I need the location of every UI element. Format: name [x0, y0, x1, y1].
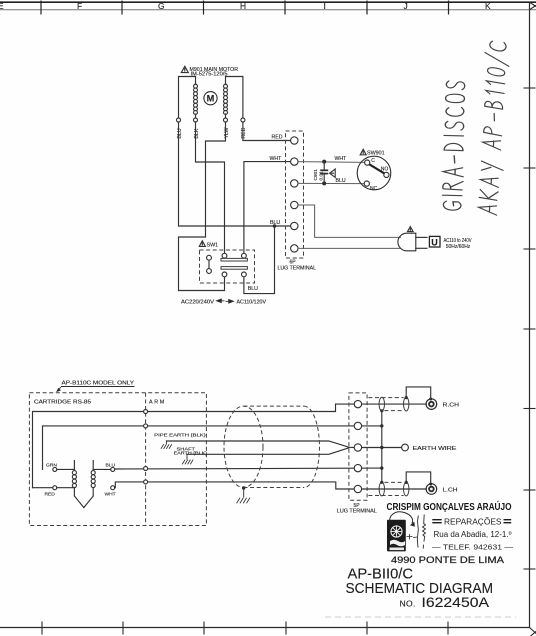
switch SW1 slide bar top	[221, 253, 247, 261]
stamp squiggle 1	[417, 516, 418, 548]
AC plug prong 1	[416, 236, 427, 238]
svg-text:G: G	[158, 1, 165, 11]
switch SW1 warning triangle	[199, 241, 205, 247]
shield ellipse r1	[379, 397, 384, 411]
AC plug body	[398, 233, 416, 251]
handwriting AKAY AP-B110/C	[475, 39, 511, 215]
wire BLU motor to lug	[179, 122, 291, 226]
wire lug6 to plug	[298, 247, 401, 249]
switch SW1 left contacts	[207, 255, 212, 273]
svg-text:AC110 to 240V: AC110 to 240V	[444, 238, 472, 244]
shield dashed top r	[368, 397, 403, 399]
svg-text:I: I	[324, 1, 326, 11]
arrow right	[226, 300, 234, 304]
cable bundle body top	[244, 405, 305, 407]
svg-text:RED: RED	[241, 127, 247, 138]
svg-text:RED: RED	[272, 135, 283, 141]
svg-text:J: J	[404, 1, 408, 11]
dot l1 top (bus end)	[380, 481, 383, 484]
wire rch	[362, 403, 427, 405]
stamp squiggle 2	[423, 515, 426, 549]
svg-text:WHT: WHT	[105, 491, 116, 497]
divider feedthru circle 4	[144, 480, 148, 484]
svg-text:GRN: GRN	[46, 463, 57, 469]
wire WHT lug to SW901	[298, 161, 365, 164]
switch SW901 contact NO	[384, 172, 389, 177]
wire wht to lug5	[115, 482, 355, 489]
cable bundle right end	[304, 406, 319, 487]
wire motor top left	[179, 77, 196, 119]
svg-text:NC: NC	[370, 186, 378, 192]
svg-text:R.CH: R.CH	[443, 403, 460, 409]
svg-text:— TELEF. 942631 —: — TELEF. 942631 —	[432, 544, 513, 551]
cable bundle body bottom	[244, 487, 305, 489]
stamp small marks	[407, 534, 418, 540]
svg-text:EARTH (BLK): EARTH (BLK)	[174, 451, 208, 457]
cartridge coil left	[72, 461, 83, 508]
svg-text:EARTH WIRE: EARTH WIRE	[413, 446, 458, 452]
wire tone arm 2 (grn)	[43, 426, 355, 470]
svg-text:50Hz/60Hz: 50Hz/60Hz	[446, 244, 471, 250]
divider feedthru circle 1	[144, 410, 148, 414]
svg-text:CRISPIM GONÇALVES ARAÚJO: CRISPIM GONÇALVES ARAÚJO	[387, 500, 512, 513]
plug warning triangle	[408, 227, 414, 232]
svg-text:LUG TERMINAL: LUG TERMINAL	[337, 509, 377, 515]
svg-text:BLK: BLK	[194, 128, 200, 138]
cartridge coil right	[84, 461, 95, 508]
bus dot wire4	[380, 466, 383, 469]
wire red to coil	[57, 487, 75, 489]
shaft earth ground	[182, 454, 193, 464]
label AP-B110C MODEL ONLY	[57, 380, 135, 391]
svg-text:YLW: YLW	[224, 128, 230, 139]
shield dashed bottom r	[384, 410, 403, 412]
faint fold line	[325, 616, 516, 618]
cable ground	[237, 488, 250, 503]
motor terminal YLW	[224, 118, 228, 122]
svg-text:M: M	[207, 94, 215, 104]
shield bus vertical	[381, 411, 383, 483]
lug 6P circle 5	[291, 222, 298, 229]
switch SW901 warning triangle	[360, 149, 366, 155]
shield hook lch	[406, 472, 431, 484]
lug 6P circle 3	[291, 180, 298, 187]
switch SW901 contact C	[365, 160, 370, 165]
voltage U box	[429, 236, 440, 247]
wire lug2 to bus	[362, 425, 382, 427]
terminal BLU	[111, 467, 115, 471]
wire earth lug3	[362, 447, 402, 449]
stamp emblem circle arrow	[390, 512, 413, 524]
svg-text:RED: RED	[45, 491, 56, 497]
terminal GRN	[53, 467, 57, 471]
svg-text:U: U	[431, 237, 438, 247]
svg-text:ARM: ARM	[149, 399, 166, 405]
svg-text:BLU: BLU	[177, 128, 183, 138]
wire lch	[362, 488, 427, 490]
switch SW901 body circle	[357, 156, 391, 190]
motor winding right (coil)	[224, 77, 228, 119]
svg-text:NO.: NO.	[400, 598, 416, 608]
svg-text:4990 PONTE DE LIMA: 4990 PONTE DE LIMA	[391, 555, 504, 565]
capacitor C901 warning triangle	[330, 169, 336, 177]
motor winding left (coil)	[194, 77, 198, 119]
svg-text:E: E	[0, 1, 4, 11]
svg-text:K: K	[485, 1, 491, 11]
wire lug4 to plug	[298, 205, 401, 237]
motor terminal RED	[241, 118, 245, 122]
dot r2 top	[405, 396, 408, 399]
corner X mark top right	[530, 2, 536, 10]
shield dashed top l	[384, 481, 403, 483]
lug 5P circle 1	[354, 400, 361, 407]
svg-text:BLU: BLU	[270, 220, 280, 226]
jack R.CH	[426, 399, 437, 410]
switch SW1 dashed box	[200, 250, 255, 283]
svg-text:BLU: BLU	[106, 463, 116, 469]
divider feedthru circle 3	[144, 467, 148, 471]
bus dot wire2	[380, 424, 383, 427]
shield ellipse l2	[404, 482, 409, 496]
wire coil to blu	[93, 468, 111, 470]
wire BLK motor to selector	[196, 122, 225, 253]
switch SW901 lever	[369, 164, 384, 173]
dot lch jack top	[429, 483, 432, 486]
wire blu to lug4	[115, 467, 382, 470]
shield dashed bottom l	[368, 495, 403, 497]
lug 5P circle 5	[354, 485, 361, 492]
svg-text:L.CH: L.CH	[443, 487, 458, 493]
shield ellipse r2	[404, 397, 409, 411]
dot l2 top	[405, 481, 408, 484]
corner X mark bottom right	[530, 628, 536, 636]
wire BLU branch to selector	[244, 226, 275, 294]
lug 6P circle 6	[291, 245, 298, 252]
svg-text:H: H	[240, 1, 246, 11]
wire WHT lug to selector	[244, 162, 291, 254]
dot rch jack top	[429, 398, 432, 401]
svg-text:C901: C901	[313, 169, 319, 181]
wire YLW motor to selector (around left)	[179, 122, 226, 291]
border frame: right ruler line	[524, 2, 536, 627]
motor M901 warning triangle	[181, 66, 188, 72]
lug terminal 6P dashed box	[286, 131, 304, 258]
bus dot earth	[380, 446, 383, 449]
lug 5P circle 2	[354, 422, 361, 429]
svg-text:NO: NO	[381, 167, 389, 173]
svg-text:SW901: SW901	[367, 151, 385, 157]
switch SW901 contact NC	[364, 181, 369, 186]
motor terminal BLU	[177, 118, 181, 122]
svg-text:AP-B110C MODEL ONLY: AP-B110C MODEL ONLY	[62, 380, 135, 386]
cartridge and arm dashed box	[29, 393, 206, 526]
svg-text:BLU: BLU	[248, 286, 258, 292]
AC plug prong 2	[416, 247, 427, 249]
junction dot BLU	[273, 224, 277, 228]
svg-text:SW1: SW1	[207, 243, 219, 249]
divider feedthru circle 2	[144, 424, 148, 428]
cable bundle ellipse	[224, 406, 263, 487]
svg-text:F: F	[77, 1, 82, 11]
switch SW1 slide bar bottom	[221, 267, 247, 277]
jack L.CH	[426, 484, 437, 495]
svg-text:Rua da Abadia, 12-1.º: Rua da Abadia, 12-1.º	[434, 530, 512, 539]
lug 6P circle 1	[291, 137, 298, 144]
wire shaft earth	[187, 448, 349, 455]
wire tone arm 1 (red)	[33, 404, 355, 488]
wire BLU lug to SW901	[298, 182, 364, 184]
svg-text:PIPE EARTH (BLK): PIPE EARTH (BLK)	[154, 433, 206, 439]
svg-text:0.01: 0.01	[318, 171, 324, 181]
arrow left	[217, 299, 225, 303]
wire motor top right	[226, 77, 243, 119]
border frame: bottom ruler line	[0, 622, 530, 635]
handwriting GIRA-DISCOS	[442, 81, 466, 211]
svg-text:BLU: BLU	[336, 178, 346, 184]
svg-text:WHT: WHT	[335, 156, 348, 162]
stamp line REPARACOES	[432, 518, 511, 527]
lug 6P circle 2	[291, 158, 298, 165]
wire pipe earth	[167, 441, 355, 448]
cable ground junction dot	[242, 486, 245, 489]
shield ellipse l1	[379, 482, 384, 496]
capacitor C901 spark killer	[320, 160, 328, 186]
terminal RED	[53, 486, 57, 490]
arm divider dashed	[145, 393, 147, 526]
lug 6P circle 4	[291, 201, 298, 208]
motor symbol U circle M	[204, 92, 217, 105]
motor terminal BLK	[194, 118, 198, 122]
svg-text:CARTRIDGE RS-85: CARTRIDGE RS-85	[34, 399, 91, 405]
svg-text:LUG TERMINAL: LUG TERMINAL	[278, 266, 317, 272]
lug 5P circle 3	[354, 444, 361, 451]
wire red terminal	[33, 487, 53, 489]
shield hook rch	[406, 387, 431, 399]
wire RED motor to lug	[243, 122, 291, 141]
svg-text:AC220/240V: AC220/240V	[181, 299, 215, 305]
lug terminal 5P dashed box	[349, 393, 367, 500]
stamp emblem dark block	[387, 520, 406, 552]
lug 5P circle 4	[354, 464, 361, 471]
earth wire terminal	[402, 444, 409, 451]
svg-text:C: C	[371, 158, 375, 164]
terminal WHT	[111, 486, 115, 490]
wire grn to coil	[57, 468, 75, 470]
svg-text:REPARAÇÕES: REPARAÇÕES	[444, 518, 502, 527]
pipe earth ground	[161, 441, 172, 449]
svg-text:WHT: WHT	[270, 156, 283, 162]
svg-text:AC110/120V: AC110/120V	[237, 299, 267, 305]
dot r1 bottom	[380, 409, 383, 412]
svg-text:I622450A: I622450A	[422, 595, 490, 611]
border frame: top ruler band	[0, 1, 536, 15]
